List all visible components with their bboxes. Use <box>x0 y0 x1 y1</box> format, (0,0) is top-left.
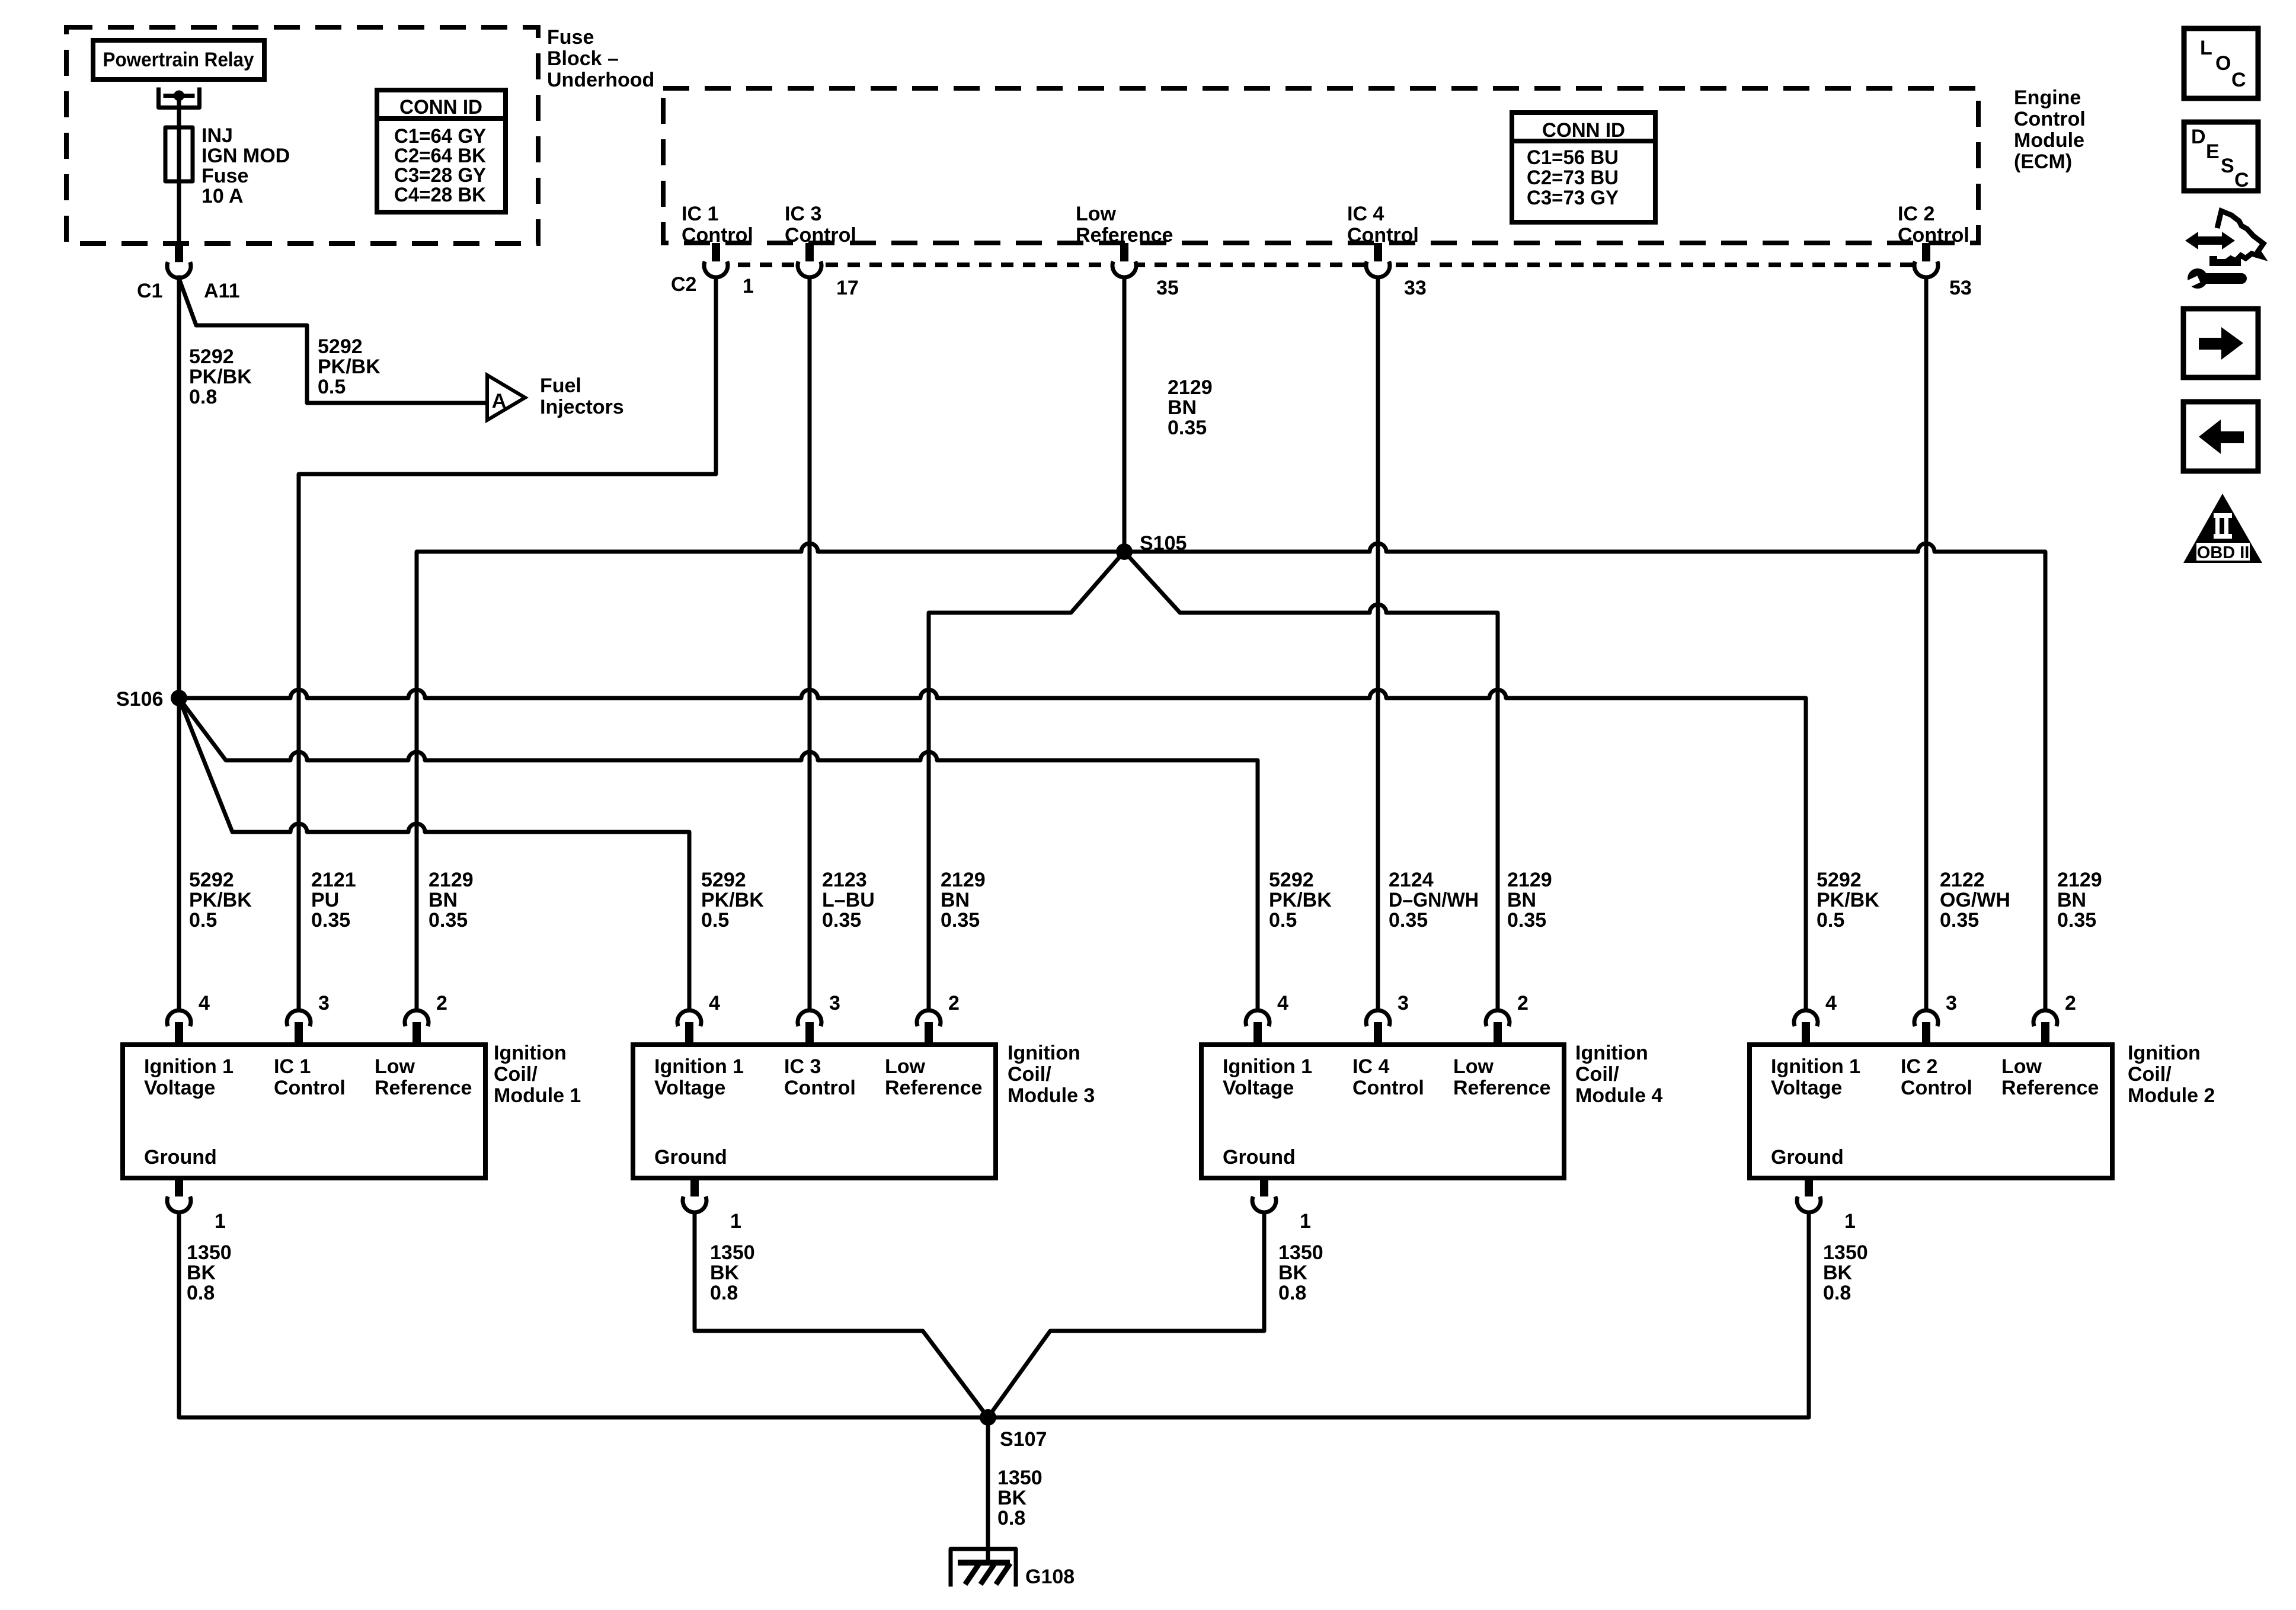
icon diagnostic wrench <box>2182 211 2263 289</box>
svg-text:0.5: 0.5 <box>1269 909 1297 932</box>
svg-text:IC 2: IC 2 <box>1898 203 1934 225</box>
svg-text:2121: 2121 <box>311 869 356 891</box>
svg-text:0.5: 0.5 <box>1817 909 1844 932</box>
relay terminal symbol <box>159 89 200 108</box>
ignition coil module 2 label <box>2128 1042 2215 1107</box>
ignition coil module 1 label <box>494 1042 581 1107</box>
module1 pin numbers <box>199 992 447 1014</box>
icon DESC box <box>2184 122 2258 191</box>
svg-text:BN: BN <box>428 889 458 911</box>
svg-text:3: 3 <box>1946 992 1957 1014</box>
module4 pin2 connector <box>1486 1010 1510 1045</box>
svg-text:IC 4: IC 4 <box>1352 1055 1389 1078</box>
wire 2129 BN S105 diagonal arm to module4 pin2 <box>1124 552 1498 1010</box>
svg-text:BK: BK <box>997 1487 1027 1509</box>
svg-text:Module: Module <box>2014 129 2084 152</box>
module1 pin4 connector <box>167 1010 191 1045</box>
svg-text:PK/BK: PK/BK <box>189 889 252 911</box>
wire 2129 BN S105 left arm to module1 pin2 <box>417 543 1124 1010</box>
svg-text:0.8: 0.8 <box>997 1507 1025 1529</box>
module4 wire labels 5292 2124 2129 <box>1269 869 1332 932</box>
svg-text:L: L <box>2200 37 2212 59</box>
svg-text:Ignition 1: Ignition 1 <box>654 1055 744 1078</box>
svg-text:0.35: 0.35 <box>1940 909 1979 932</box>
svg-text:IC 2: IC 2 <box>1901 1055 1937 1078</box>
ECM pin number labels <box>671 273 1972 299</box>
ECM pin 1 connector <box>704 243 728 277</box>
svg-text:1350: 1350 <box>710 1241 755 1264</box>
module3 pin numbers <box>709 992 960 1014</box>
svg-text:INJ: INJ <box>202 124 233 147</box>
node C1 A11 labels <box>137 280 240 302</box>
svg-text:PU: PU <box>311 889 339 911</box>
svg-text:Ignition: Ignition <box>1575 1042 1648 1064</box>
svg-text:Module 3: Module 3 <box>1008 1084 1095 1107</box>
svg-text:2129: 2129 <box>1168 376 1213 399</box>
wire label 1350 BK 0.8 at S107 <box>997 1467 1043 1529</box>
svg-text:0.8: 0.8 <box>189 386 217 408</box>
svg-text:Ground: Ground <box>144 1146 217 1169</box>
module2 pin3 connector <box>1914 1010 1938 1045</box>
module1 pin2 connector <box>405 1010 428 1045</box>
ECM label <box>2014 87 2086 173</box>
svg-text:2: 2 <box>436 992 447 1014</box>
svg-text:Low: Low <box>375 1055 415 1078</box>
svg-text:Coil/: Coil/ <box>494 1063 538 1086</box>
svg-text:A11: A11 <box>204 280 240 302</box>
svg-text:IC 4: IC 4 <box>1347 203 1384 225</box>
wire 1350 BK module4 ground to S107 <box>988 1212 1264 1417</box>
wire 2129 BN S105 diagonal arm to module3 pin2 <box>929 552 1124 1010</box>
svg-text:4: 4 <box>199 992 210 1014</box>
module2 pin4 connector <box>1794 1010 1818 1045</box>
svg-text:5292: 5292 <box>701 869 746 891</box>
connector pin C1 fuse block <box>167 244 191 278</box>
ground wire labels 1350 BK 0.8 <box>187 1241 232 1304</box>
splice S107 <box>980 1409 1047 1451</box>
svg-text:Voltage: Voltage <box>1771 1077 1842 1099</box>
module2 ground pin connector <box>1797 1178 1821 1212</box>
svg-text:5292: 5292 <box>318 335 363 358</box>
module4 pin3 connector <box>1366 1010 1390 1045</box>
svg-text:0.35: 0.35 <box>428 909 468 932</box>
svg-text:Voltage: Voltage <box>144 1077 215 1099</box>
svg-text:PK/BK: PK/BK <box>189 366 252 388</box>
svg-text:Ignition 1: Ignition 1 <box>144 1055 234 1078</box>
ignition coil module 4 box <box>1201 1045 1564 1178</box>
ECM pin 53 connector <box>1914 243 1938 277</box>
svg-text:IC 1: IC 1 <box>682 203 718 225</box>
svg-text:Reference: Reference <box>885 1077 982 1099</box>
ground G108 <box>951 1549 1075 1588</box>
wire 5292 S106 bus to module2 pin4 <box>179 690 1806 1010</box>
svg-text:BN: BN <box>1168 396 1197 419</box>
wire 2121 PU from ECM pin1 IC1 control to module1 pin3 <box>299 277 716 1010</box>
svg-text:C3=73 GY: C3=73 GY <box>1527 187 1619 209</box>
svg-text:Coil/: Coil/ <box>1575 1063 1619 1086</box>
svg-text:S107: S107 <box>1000 1428 1047 1451</box>
icon arrow left box <box>2183 402 2258 471</box>
ECM pin labels <box>682 203 753 247</box>
svg-text:Control: Control <box>1898 224 1969 247</box>
svg-text:2129: 2129 <box>2057 869 2102 891</box>
CONN ID table fuse block <box>377 90 506 212</box>
svg-text:BK: BK <box>1823 1262 1853 1284</box>
svg-text:Reference: Reference <box>375 1077 472 1099</box>
wire 2129 BN from ECM pin35 low reference to S105 <box>1123 277 1127 552</box>
svg-text:Ignition 1: Ignition 1 <box>1223 1055 1312 1078</box>
module4 ground pin connector <box>1252 1178 1276 1212</box>
svg-text:PK/BK: PK/BK <box>701 889 764 911</box>
svg-text:Module 2: Module 2 <box>2128 1084 2215 1107</box>
svg-text:C1=56 BU: C1=56 BU <box>1527 146 1619 169</box>
svg-text:Ground: Ground <box>1223 1146 1296 1169</box>
svg-text:Ground: Ground <box>654 1146 727 1169</box>
svg-text:0.8: 0.8 <box>1278 1282 1306 1304</box>
ignition coil module 3 box <box>633 1045 996 1178</box>
svg-text:Coil/: Coil/ <box>2128 1063 2172 1086</box>
svg-text:2129: 2129 <box>428 869 474 891</box>
svg-text:CONN ID: CONN ID <box>399 96 482 119</box>
svg-text:D: D <box>2191 126 2206 148</box>
svg-text:2129: 2129 <box>941 869 986 891</box>
wire 1350 BK S107 to G108 <box>986 1417 990 1561</box>
svg-text:BK: BK <box>187 1262 216 1284</box>
svg-text:A: A <box>492 390 507 412</box>
svg-text:2123: 2123 <box>822 869 867 891</box>
wire 2129 BN S105 right arm to module2 pin2 <box>1124 543 2045 1010</box>
svg-text:1: 1 <box>743 275 754 297</box>
svg-text:G108: G108 <box>1025 1566 1075 1588</box>
svg-text:Ignition: Ignition <box>1008 1042 1080 1064</box>
svg-text:BN: BN <box>941 889 970 911</box>
svg-text:2: 2 <box>1517 992 1528 1014</box>
svg-text:3: 3 <box>1398 992 1409 1014</box>
svg-text:0.35: 0.35 <box>1507 909 1546 932</box>
svg-text:0.35: 0.35 <box>2057 909 2096 932</box>
ground pin number labels <box>215 1210 1856 1233</box>
svg-text:17: 17 <box>836 277 859 299</box>
svg-text:BN: BN <box>1507 889 1536 911</box>
svg-text:Fuse: Fuse <box>202 165 248 187</box>
svg-text:2129: 2129 <box>1507 869 1552 891</box>
svg-text:3: 3 <box>829 992 840 1014</box>
module2 pin2 connector <box>2033 1010 2057 1045</box>
svg-text:0.8: 0.8 <box>710 1282 738 1304</box>
svg-text:0.35: 0.35 <box>1389 909 1428 932</box>
wire 5292 PK/BK 0.5 branch A11 to fuel injectors <box>179 279 486 403</box>
svg-text:2122: 2122 <box>1940 869 1985 891</box>
ignition coil module 3 label <box>1008 1042 1095 1107</box>
svg-text:0.8: 0.8 <box>187 1282 215 1304</box>
module1 pin3 connector <box>287 1010 311 1045</box>
svg-text:0.35: 0.35 <box>941 909 980 932</box>
powertrain relay box <box>93 40 264 79</box>
wire 5292 PK/BK 0.8 from C1 through S106 to module1 pin4 <box>177 277 181 1010</box>
svg-text:Low: Low <box>2001 1055 2042 1078</box>
svg-text:Ignition: Ignition <box>494 1042 567 1064</box>
svg-text:IGN MOD: IGN MOD <box>202 145 290 167</box>
module2 wire labels 5292 2122 2129 <box>1817 869 1879 932</box>
wire from relay through fuse to C1 <box>177 95 181 244</box>
ECM pin 33 connector <box>1366 243 1390 277</box>
svg-text:Ignition: Ignition <box>2128 1042 2201 1064</box>
svg-text:Voltage: Voltage <box>1223 1077 1294 1099</box>
fuel injectors triangle A <box>487 375 624 420</box>
ignition coil module 4 label <box>1575 1042 1662 1107</box>
svg-text:S106: S106 <box>116 688 163 710</box>
svg-text:Control: Control <box>1347 224 1419 247</box>
svg-text:Reference: Reference <box>2001 1077 2099 1099</box>
svg-text:Fuse: Fuse <box>547 26 594 49</box>
svg-text:1350: 1350 <box>187 1241 232 1264</box>
svg-text:OG/WH: OG/WH <box>1940 889 2010 911</box>
icon arrow right box <box>2183 309 2258 377</box>
ignition coil module 1 box <box>123 1045 485 1178</box>
svg-text:1: 1 <box>215 1210 226 1233</box>
wire label 2129 BN 0.35 upper <box>1168 376 1213 439</box>
svg-text:E: E <box>2206 140 2220 163</box>
ECM dashed box <box>663 88 1978 243</box>
svg-text:2: 2 <box>948 992 960 1014</box>
svg-text:Powertrain Relay: Powertrain Relay <box>103 49 254 71</box>
CONN ID table ECM <box>1512 113 1655 222</box>
svg-text:Low: Low <box>885 1055 926 1078</box>
svg-text:BK: BK <box>710 1262 740 1284</box>
svg-text:0.5: 0.5 <box>318 376 346 398</box>
svg-text:PK/BK: PK/BK <box>1269 889 1332 911</box>
svg-text:0.35: 0.35 <box>1168 417 1207 439</box>
svg-text:Block –: Block – <box>547 47 619 70</box>
ignition coil module 2 box <box>1750 1045 2112 1178</box>
svg-text:L–BU: L–BU <box>822 889 875 911</box>
svg-text:Control: Control <box>785 224 856 247</box>
svg-text:Underhood: Underhood <box>547 69 654 91</box>
svg-text:Module 1: Module 1 <box>494 1084 581 1107</box>
svg-text:1: 1 <box>1300 1210 1311 1233</box>
svg-text:1350: 1350 <box>1278 1241 1323 1264</box>
svg-text:Low: Low <box>1453 1055 1494 1078</box>
module3 ground pin connector <box>683 1178 706 1212</box>
svg-text:C: C <box>2231 69 2246 91</box>
module3 pin4 connector <box>677 1010 701 1045</box>
svg-text:BK: BK <box>1278 1262 1308 1284</box>
module2 pin numbers <box>1825 992 2076 1014</box>
svg-text:C2: C2 <box>671 273 696 296</box>
svg-text:Injectors: Injectors <box>540 396 624 418</box>
svg-text:2124: 2124 <box>1389 869 1434 891</box>
svg-text:Module 4: Module 4 <box>1575 1084 1662 1107</box>
svg-text:4: 4 <box>1277 992 1288 1014</box>
svg-text:Voltage: Voltage <box>654 1077 725 1099</box>
splice S106 <box>116 688 187 710</box>
svg-text:Control: Control <box>274 1077 346 1099</box>
module1 ground pin connector <box>167 1178 191 1212</box>
svg-text:35: 35 <box>1156 277 1179 299</box>
module3 pin3 connector <box>798 1010 821 1045</box>
svg-text:Control: Control <box>2014 108 2086 130</box>
svg-text:CONN ID: CONN ID <box>1542 119 1625 142</box>
svg-text:4: 4 <box>1825 992 1837 1014</box>
svg-text:0.5: 0.5 <box>701 909 729 932</box>
svg-text:(ECM): (ECM) <box>2014 151 2072 173</box>
svg-text:5292: 5292 <box>189 869 234 891</box>
svg-text:5292: 5292 <box>189 345 234 368</box>
svg-text:0.35: 0.35 <box>822 909 861 932</box>
svg-text:1: 1 <box>730 1210 741 1233</box>
icon LOC box <box>2184 28 2258 98</box>
wire 1350 BK module3 ground to S107 <box>695 1212 988 1417</box>
svg-text:BN: BN <box>2057 889 2086 911</box>
svg-text:OBD II: OBD II <box>2197 543 2250 562</box>
wire 1350 BK ground bus module1 to module2 <box>179 1212 1809 1417</box>
svg-text:IC 3: IC 3 <box>784 1055 821 1078</box>
svg-text:4: 4 <box>709 992 720 1014</box>
svg-text:3: 3 <box>318 992 330 1014</box>
splice S105 <box>1116 532 1187 560</box>
svg-text:IC 3: IC 3 <box>785 203 821 225</box>
wire 2123 L-BU from ECM pin17 IC3 control to module3 pin3 <box>808 277 812 1010</box>
svg-text:Reference: Reference <box>1453 1077 1550 1099</box>
ECM connector C2 dotted line <box>716 263 1937 267</box>
svg-text:Fuel: Fuel <box>540 375 581 397</box>
svg-text:Ground: Ground <box>1771 1146 1844 1169</box>
svg-text:0.5: 0.5 <box>189 909 217 932</box>
wire 5292 S106 bus to module4 pin4 <box>179 698 1258 1010</box>
wire 2124 D-GN/WH from ECM pin33 IC4 control to module4 pin3 <box>1376 277 1380 1010</box>
module3 wire labels 5292 2123 2129 <box>701 869 764 932</box>
fuse INJ IGN MOD 10A <box>165 124 290 207</box>
svg-text:1: 1 <box>1844 1210 1856 1233</box>
module4 pin4 connector <box>1246 1010 1269 1045</box>
svg-text:2: 2 <box>2065 992 2076 1014</box>
svg-text:1350: 1350 <box>997 1467 1043 1489</box>
svg-text:5292: 5292 <box>1817 869 1862 891</box>
svg-text:33: 33 <box>1404 277 1427 299</box>
icon OBD II triangle <box>2183 494 2262 563</box>
svg-text:C1: C1 <box>137 280 162 302</box>
svg-text:PK/BK: PK/BK <box>318 356 380 378</box>
wire 5292 S106 bus to module3 pin4 <box>179 698 689 1010</box>
svg-text:Control: Control <box>1901 1077 1972 1099</box>
svg-text:0.8: 0.8 <box>1823 1282 1851 1304</box>
svg-text:C2=73 BU: C2=73 BU <box>1527 167 1619 189</box>
svg-text:Ignition 1: Ignition 1 <box>1771 1055 1860 1078</box>
ECM pin 35 connector <box>1112 243 1136 277</box>
svg-text:O: O <box>2215 52 2231 75</box>
wire 2122 OG/WH from ECM pin53 IC2 control to module2 pin3 <box>1924 277 1929 1010</box>
wire label 5292 PK/BK 0.5 <box>318 335 380 398</box>
ECM pin 17 connector <box>798 243 821 277</box>
svg-text:Low: Low <box>1076 203 1117 225</box>
svg-text:5292: 5292 <box>1269 869 1314 891</box>
svg-text:D–GN/WH: D–GN/WH <box>1389 889 1479 911</box>
svg-text:Control: Control <box>1352 1077 1424 1099</box>
svg-text:C4=28 BK: C4=28 BK <box>394 184 486 206</box>
fuse block label <box>547 26 654 91</box>
svg-text:Engine: Engine <box>2014 87 2081 109</box>
svg-text:S: S <box>2221 155 2234 177</box>
svg-text:10 A: 10 A <box>202 185 244 207</box>
svg-text:IC 1: IC 1 <box>274 1055 311 1078</box>
svg-text:C: C <box>2234 169 2249 191</box>
svg-text:PK/BK: PK/BK <box>1817 889 1879 911</box>
fuse block underhood dashed box <box>66 27 538 244</box>
wire label 5292 PK/BK 0.8 <box>189 345 252 408</box>
svg-text:53: 53 <box>1949 277 1972 299</box>
svg-text:Coil/: Coil/ <box>1008 1063 1051 1086</box>
module1 wire labels 5292 2121 2129 <box>189 869 252 932</box>
svg-text:1350: 1350 <box>1823 1241 1868 1264</box>
module3 pin2 connector <box>917 1010 941 1045</box>
svg-text:0.35: 0.35 <box>311 909 350 932</box>
svg-text:Control: Control <box>784 1077 856 1099</box>
module4 pin numbers <box>1277 992 1528 1014</box>
